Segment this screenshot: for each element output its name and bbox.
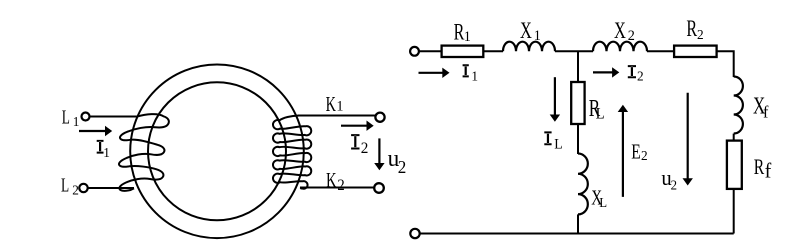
terminal K2 (374, 183, 384, 193)
label L1 (62, 106, 70, 128)
svg-text:1: 1 (336, 98, 343, 114)
svg-text:2: 2 (641, 148, 648, 163)
arrow I1 (left) (79, 130, 106, 132)
inductor X1 (503, 42, 555, 52)
svg-text:1: 1 (471, 68, 478, 83)
label XL (591, 186, 602, 209)
inductor Xf (734, 77, 743, 134)
label X1 (520, 19, 532, 44)
svg-text:L: L (596, 106, 605, 122)
svg-text:L: L (554, 136, 562, 152)
label Xf (753, 91, 765, 119)
label R1 (454, 20, 465, 45)
wire L1 lead (90, 116, 138, 118)
arrow u2 (right) (687, 93, 689, 179)
resistor Rf box (727, 141, 742, 189)
primary winding W1 (119, 114, 169, 191)
wire R1 to X1 (483, 50, 503, 52)
arrow I2 (left) (341, 125, 367, 127)
label IL (544, 131, 551, 145)
arrow E2 (622, 112, 624, 197)
svg-text:2: 2 (72, 182, 79, 197)
terminal L2 (79, 184, 87, 192)
wire XL to bottom rail (577, 214, 579, 233)
label I2 (left) (351, 134, 359, 149)
label K1 (326, 92, 336, 115)
svg-text:f: f (765, 160, 772, 183)
svg-text:K: K (326, 92, 336, 115)
svg-text:2: 2 (628, 27, 635, 43)
label u2 (right) (661, 166, 672, 191)
arrow I2 (right) (593, 71, 613, 73)
svg-text:K: K (326, 168, 337, 191)
svg-text:f: f (763, 102, 769, 121)
label u2 (left) (388, 145, 400, 172)
label K2 (326, 168, 337, 191)
terminal input bottom (410, 229, 419, 238)
toroid core outer circle (130, 65, 304, 239)
wire X1 to X2 across node (555, 50, 593, 52)
arrow I1 (right) (419, 72, 443, 74)
svg-text:X: X (614, 19, 626, 44)
wire X2 to R2 (647, 50, 674, 52)
svg-text:L: L (599, 195, 607, 210)
wire top input to R1 (419, 50, 442, 52)
label I1 (right) (463, 64, 469, 77)
wire Xf to Rf (733, 134, 735, 141)
wire R2 to top-right corner down to Xf (717, 51, 734, 77)
svg-text:E: E (631, 140, 641, 164)
label Rf (754, 155, 765, 179)
inductor XL (578, 154, 588, 215)
svg-text:1: 1 (534, 27, 541, 43)
label RL (589, 94, 600, 122)
wire L2 lead (88, 187, 134, 189)
svg-text:L: L (62, 106, 70, 128)
svg-text:1: 1 (103, 145, 110, 160)
svg-text:2: 2 (637, 68, 644, 83)
toroid core inner circle (148, 82, 286, 220)
terminal input top (410, 47, 419, 56)
label R2 (686, 17, 697, 42)
svg-text:R: R (754, 155, 765, 179)
wire K2 lead (300, 187, 374, 189)
svg-text:2: 2 (697, 27, 704, 42)
wire RL to XL (577, 124, 579, 154)
svg-text:X: X (520, 19, 532, 44)
arrow u2 (left) (378, 138, 380, 163)
arrow IL (554, 77, 556, 115)
wire bottom rail (420, 233, 734, 235)
svg-text:2: 2 (398, 157, 407, 178)
wire K1 lead (298, 115, 375, 117)
svg-text:1: 1 (73, 114, 80, 129)
inductor X2 (593, 42, 647, 52)
secondary winding W2 (273, 116, 311, 189)
resistor RL box (571, 82, 584, 124)
label E2 (631, 140, 641, 164)
svg-text:2: 2 (671, 177, 677, 192)
resistor R2 box (674, 46, 717, 57)
terminal L1 (82, 113, 90, 121)
label L2 (61, 174, 69, 196)
svg-text:2: 2 (361, 140, 369, 157)
label I1 (left) (97, 140, 104, 154)
resistor R1 box (442, 46, 484, 57)
svg-text:L: L (61, 174, 69, 196)
svg-text:R: R (686, 17, 697, 42)
label I2 (right) (628, 65, 636, 78)
wire Rf to bottom-right corner (733, 189, 735, 234)
svg-text:2: 2 (337, 177, 344, 193)
svg-text:1: 1 (464, 28, 471, 44)
terminal K1 (375, 113, 384, 122)
wire node to RL (577, 51, 579, 82)
label X2 (614, 19, 626, 44)
